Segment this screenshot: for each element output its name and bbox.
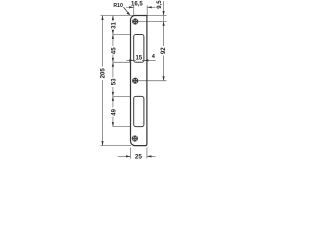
right 9,5 outside arrows + 92 bbox=[163, 11, 165, 16]
dim line right 9,5 / 92 bbox=[163, 1, 165, 46]
ext line 25 right bbox=[146, 148, 148, 159]
svg-text:9,5: 9,5 bbox=[157, 0, 163, 9]
svg-text:49: 49 bbox=[111, 108, 118, 115]
plate outline bbox=[130, 16, 146, 146]
arrowheads bbox=[101, 6, 164, 157]
screw hole 2 bbox=[132, 78, 138, 84]
cutout 2 (deadbolt opening) bbox=[134, 96, 144, 126]
screw hole 3 bbox=[132, 135, 138, 141]
dim line 205 bbox=[102, 16, 104, 67]
R10 leader arrow bbox=[127, 12, 131, 16]
16,5 arrows (outside, pointing inward) bbox=[129, 6, 134, 8]
dim line 4 tail bbox=[144, 59, 156, 61]
205 top/bottom bbox=[101, 16, 103, 21]
ext line cutout2 bottom bbox=[113, 126, 131, 128]
screw hole 1 bbox=[132, 18, 138, 24]
R10 leader line bbox=[124, 7, 129, 13]
svg-text:53: 53 bbox=[111, 78, 118, 85]
svg-text:92: 92 bbox=[160, 47, 167, 54]
ext line 16,5 left bbox=[133, 5, 135, 15]
ext line cutout2 top bbox=[113, 95, 131, 97]
25 arrows bbox=[126, 155, 131, 157]
ext line hole2 center bbox=[138, 80, 166, 82]
ext line 16,5 right bbox=[146, 5, 148, 15]
ext line hole1 center bbox=[138, 20, 166, 22]
svg-text:31: 31 bbox=[111, 22, 118, 29]
svg-text:15: 15 bbox=[135, 56, 142, 62]
ext line cutout1 top bbox=[113, 33, 131, 35]
svg-text:25: 25 bbox=[135, 153, 143, 160]
ext line cutout1 bottom bbox=[113, 61, 131, 63]
svg-text:45: 45 bbox=[111, 47, 118, 54]
svg-text:R10: R10 bbox=[113, 3, 123, 9]
svg-text:205: 205 bbox=[100, 68, 107, 79]
ext line top edge (left + right) bbox=[101, 15, 167, 17]
dim line 16,5 tails bbox=[126, 6, 133, 8]
dim line 15 left tail bbox=[126, 59, 133, 61]
ext line bottom edge bbox=[101, 145, 132, 147]
svg-text:16,5: 16,5 bbox=[131, 2, 143, 8]
ext line 25 left bbox=[130, 148, 132, 159]
15 arrows bbox=[129, 59, 134, 61]
cutout 1 (latch opening) bbox=[134, 35, 144, 63]
dim line 25 tails bbox=[118, 155, 131, 157]
dim line chain 31-45-53-49 bbox=[112, 16, 114, 22]
chain arrows bbox=[112, 16, 114, 21]
